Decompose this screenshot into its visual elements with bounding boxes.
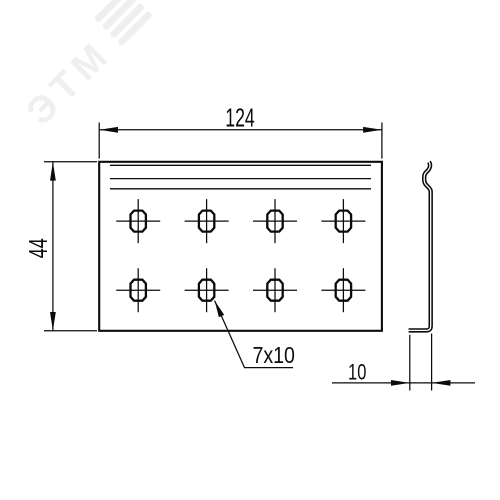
svg-text:124: 124	[225, 105, 255, 133]
svg-text:44: 44	[25, 238, 53, 258]
svg-text:10: 10	[348, 359, 366, 384]
svg-text:7x10: 7x10	[252, 342, 295, 368]
